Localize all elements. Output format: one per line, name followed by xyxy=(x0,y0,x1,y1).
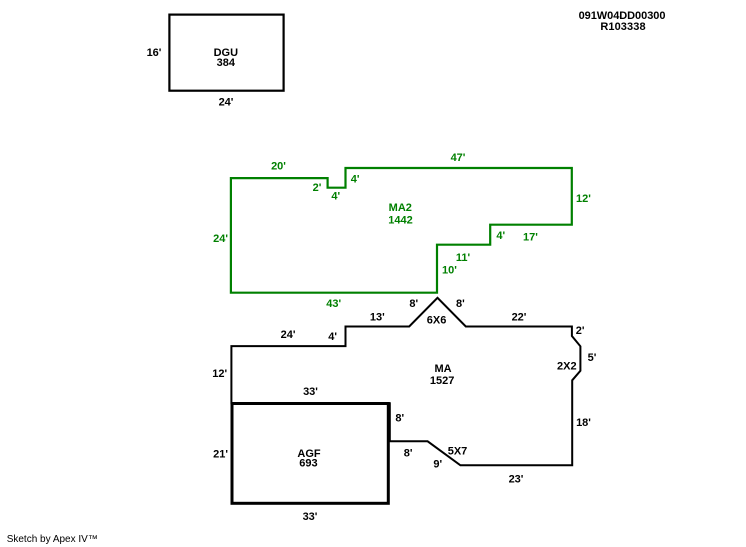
svg-text:8': 8' xyxy=(404,447,413,459)
svg-text:4': 4' xyxy=(351,174,360,186)
svg-text:10': 10' xyxy=(442,265,457,277)
svg-text:33': 33' xyxy=(303,511,318,523)
svg-text:2': 2' xyxy=(313,182,322,194)
svg-text:1442: 1442 xyxy=(388,215,412,227)
svg-text:23': 23' xyxy=(509,474,524,486)
svg-text:12': 12' xyxy=(576,193,591,205)
svg-text:24': 24' xyxy=(281,329,296,341)
svg-text:43': 43' xyxy=(326,298,341,310)
svg-text:6X6: 6X6 xyxy=(427,314,447,326)
svg-text:8': 8' xyxy=(395,413,404,425)
svg-text:20': 20' xyxy=(271,161,286,173)
svg-text:2': 2' xyxy=(576,325,585,337)
svg-text:Sketch by Apex IV™: Sketch by Apex IV™ xyxy=(7,534,98,545)
svg-text:16': 16' xyxy=(147,47,162,59)
svg-text:5': 5' xyxy=(588,352,597,364)
svg-text:21': 21' xyxy=(213,448,228,460)
svg-text:MA2: MA2 xyxy=(389,202,412,214)
svg-text:1527: 1527 xyxy=(430,375,454,387)
svg-text:2X2: 2X2 xyxy=(557,361,577,373)
svg-text:33': 33' xyxy=(303,386,318,398)
svg-text:24': 24' xyxy=(219,97,234,109)
svg-text:8': 8' xyxy=(456,298,465,310)
svg-text:5X7: 5X7 xyxy=(448,446,468,458)
svg-text:4': 4' xyxy=(328,331,337,343)
svg-text:9': 9' xyxy=(433,458,442,470)
svg-text:47': 47' xyxy=(451,152,466,164)
svg-text:24': 24' xyxy=(213,233,228,245)
svg-text:8': 8' xyxy=(409,298,418,310)
svg-text:4': 4' xyxy=(496,230,505,242)
svg-text:18': 18' xyxy=(576,417,591,429)
svg-text:384: 384 xyxy=(217,57,236,69)
svg-text:MA: MA xyxy=(434,363,451,375)
svg-text:091W04DD00300: 091W04DD00300 xyxy=(579,10,666,22)
svg-text:693: 693 xyxy=(299,457,317,469)
svg-text:4': 4' xyxy=(331,191,340,203)
svg-text:R103338: R103338 xyxy=(600,21,645,33)
svg-text:11': 11' xyxy=(456,252,471,264)
svg-text:17': 17' xyxy=(523,232,538,244)
svg-text:22': 22' xyxy=(512,312,527,324)
svg-text:13': 13' xyxy=(370,312,385,324)
svg-text:12': 12' xyxy=(212,368,227,380)
